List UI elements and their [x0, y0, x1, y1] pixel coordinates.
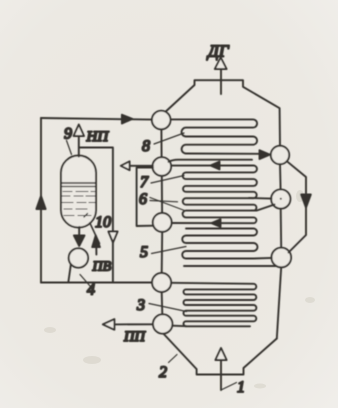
steam outlet arrow (hollow up)	[74, 125, 84, 137]
label 2 with pointer	[169, 355, 178, 363]
feedwater inlet line	[95, 247, 97, 255]
steam line L2 to branch	[122, 165, 153, 167]
svg-text:4: 4	[87, 282, 95, 299]
steam line arrow (hollow left)	[121, 161, 130, 170]
gas inlet arrow (hollow up)	[215, 348, 226, 360]
label 8 with pointer	[154, 133, 184, 144]
svg-text:5: 5	[140, 244, 148, 261]
coil bank 8 serpentine	[171, 119, 259, 153]
flue gas outlet pipe	[220, 69, 222, 94]
svg-text:9: 9	[64, 126, 72, 143]
bypass flow arrow (filled down)	[301, 195, 311, 208]
label 1 with pointer	[221, 383, 237, 391]
header L2	[153, 157, 172, 176]
flow arrow into L3 (filled left)	[212, 219, 221, 227]
vessel casing 2 top outline	[163, 80, 281, 146]
coil bank 5 last pass	[184, 265, 277, 267]
label 7 with pointer	[151, 176, 184, 184]
flow arrow on bank 7 first pass (filled left)	[211, 162, 220, 170]
drum water level	[62, 182, 96, 184]
vessel bottom funnel	[163, 334, 276, 375]
scan noise speckles (decorative)	[44, 190, 315, 389]
svg-text:2: 2	[159, 364, 167, 381]
svg-text:ПП: ПП	[123, 329, 146, 345]
svg-text:1: 1	[237, 379, 245, 396]
label 4 with pointer	[80, 275, 90, 287]
svg-text:3: 3	[136, 297, 145, 314]
header R3	[272, 248, 292, 268]
flue gas arrow (hollow up)	[215, 58, 227, 70]
arrow into R1 (filled right)	[260, 150, 270, 159]
svg-text:8: 8	[142, 138, 150, 155]
label 6 with pointers	[150, 198, 185, 211]
feedwater arrow (filled up)	[92, 236, 100, 248]
vessel right wall segments	[279, 164, 282, 189]
connector L5 to coil	[173, 325, 186, 328]
header R1	[271, 146, 289, 164]
drum water hatching	[62, 192, 95, 216]
external pipe L2 to L3	[137, 168, 154, 227]
arrow drum to pump (filled down)	[74, 236, 85, 247]
connector R2 to coil pass	[249, 197, 272, 200]
coil banks 7/6 serpentine	[171, 166, 257, 224]
vessel left wall segments	[160, 129, 162, 157]
circulation loop bottom line to L4	[41, 282, 152, 284]
svg-text:ПВ: ПВ	[92, 260, 112, 275]
steam branch pipe over drum	[79, 148, 113, 283]
pump discharge to loop	[68, 264, 71, 282]
coil bank 5 serpentine	[182, 229, 272, 259]
header R2	[271, 189, 290, 208]
header L4	[152, 273, 171, 292]
riser flow arrow (filled up)	[36, 196, 45, 209]
drum steam outlet pipe	[78, 136, 80, 157]
right bypass downcomer R1 to R3	[287, 161, 306, 252]
svg-text:ДГ: ДГ	[206, 42, 230, 61]
label 3 with pointer	[149, 304, 187, 312]
loop flow arrow (filled right)	[122, 115, 132, 124]
coil bank 3 serpentine	[172, 283, 257, 327]
header L5	[153, 314, 172, 333]
connector R2 diagonal to coil pass	[251, 205, 275, 211]
header L1	[152, 111, 171, 130]
downcomer drum to pump	[78, 227, 80, 237]
circulation pump 4	[69, 248, 88, 267]
svg-text:НП: НП	[86, 129, 110, 145]
steam drum 9	[61, 156, 96, 228]
steam outlet arrow (hollow left)	[103, 319, 115, 330]
coil bank 7 top pass	[169, 160, 253, 162]
branch flow arrow (hollow down)	[108, 232, 117, 243]
feed pipe 10 into drum	[90, 223, 100, 244]
node dot in R2	[280, 198, 282, 200]
superheated steam outlet line	[115, 323, 154, 325]
header L3	[153, 213, 172, 232]
svg-text:6: 6	[139, 191, 147, 208]
noise tick in drum	[84, 214, 88, 218]
svg-text:7: 7	[140, 174, 149, 191]
circulation loop top line to L1	[41, 118, 152, 120]
label 9 with pointer	[67, 141, 72, 155]
svg-text:10: 10	[95, 214, 111, 231]
circulation loop left riser	[40, 118, 42, 283]
gas inlet pipe	[220, 360, 222, 390]
label 5 with pointer	[152, 247, 187, 254]
